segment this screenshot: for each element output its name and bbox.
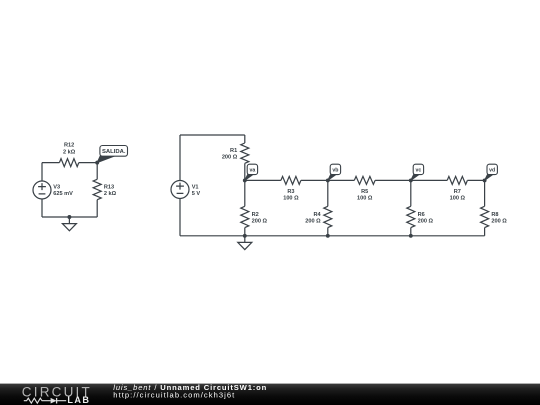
svg-text:SALIDA.: SALIDA. [102,149,126,155]
svg-text:http://circuitlab.com/ckh3j6t: http://circuitlab.com/ckh3j6t [113,391,235,400]
svg-text:100 Ω: 100 Ω [450,196,466,202]
svg-text:100 Ω: 100 Ω [283,195,299,201]
svg-text:R1: R1 [230,148,237,154]
svg-text:vc: vc [416,167,422,173]
svg-text:200 Ω: 200 Ω [418,219,434,225]
svg-text:200 Ω: 200 Ω [491,219,507,225]
svg-text:200 Ω: 200 Ω [305,219,321,225]
svg-text:R2: R2 [252,212,259,218]
svg-text:R12: R12 [64,143,74,149]
svg-text:200 Ω: 200 Ω [252,219,268,225]
svg-text:R6: R6 [418,212,425,218]
svg-text:R7: R7 [454,189,461,195]
svg-text:R8: R8 [491,212,498,218]
svg-text:200 Ω: 200 Ω [222,154,238,160]
svg-text:2 kΩ: 2 kΩ [63,149,76,155]
svg-text:R5: R5 [361,189,368,195]
svg-text:100 Ω: 100 Ω [357,195,373,201]
svg-text:V3: V3 [53,185,60,191]
svg-text:5 V: 5 V [192,191,201,197]
svg-text:R13: R13 [104,184,114,190]
svg-text:R4: R4 [313,212,321,218]
svg-text:va: va [250,167,256,173]
svg-text:V1: V1 [192,184,199,190]
svg-text:LAB: LAB [67,395,90,405]
svg-text:R3: R3 [287,189,294,195]
svg-text:vd: vd [489,167,495,173]
svg-text:625 mV: 625 mV [53,191,73,197]
svg-text:vb: vb [332,167,338,173]
svg-text:2 kΩ: 2 kΩ [104,191,117,197]
